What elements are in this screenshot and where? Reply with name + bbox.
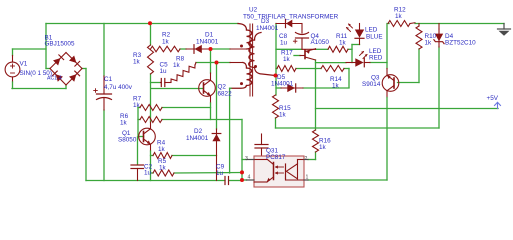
transistor Q3: [382, 75, 399, 92]
resistor R14: [321, 66, 344, 72]
svg-text:BZT52C10: BZT52C10: [445, 40, 476, 47]
wire R10 top lead: [418, 24, 420, 27]
svg-text:1k: 1k: [158, 146, 166, 153]
wire Q3 base: [398, 82, 420, 84]
wire V1 bottom lead: [12, 77, 14, 82]
wire y=49 line D3node-C8-Q4 collector: [276, 48, 302, 50]
wire R17 to R14 (Q4 emitter node): [296, 68, 321, 70]
wire D5/D2 vertical x=216.5 upper: [216, 63, 218, 130]
resistor R7: [140, 105, 162, 111]
svg-text:1k: 1k: [395, 13, 403, 20]
svg-text:6822: 6822: [218, 91, 233, 98]
wire Q4 emitter vertical: [315, 60, 317, 69]
resistor R10: [416, 26, 422, 49]
diode D5: [281, 87, 303, 89]
LED BLUE: [359, 24, 361, 30]
wire R4 right to D2 line: [172, 155, 217, 157]
opto pin 1: [304, 179, 308, 181]
wire Q4 emitter node down to D5 line: [315, 69, 317, 88]
svg-text:1N4001: 1N4001: [256, 25, 279, 32]
zener diode D4: [438, 29, 440, 47]
wire C9 to opto pin4 node: [229, 180, 242, 182]
wire D3-left vertical down to R15 (x=276): [275, 24, 277, 96]
capacitor C9: [224, 177, 226, 185]
wire rail to R3 top: [150, 24, 152, 46]
wire Q1 emitter descender: [150, 151, 152, 181]
wire Q2 base: [151, 88, 203, 90]
wire D5 cathode line to R14 descender: [303, 87, 349, 89]
svg-text:1k: 1k: [120, 120, 128, 127]
voltage source V1: [5, 62, 20, 77]
wire top rail left (bridge + to transformer primary): [46, 23, 238, 25]
wire LED blue hook: [352, 44, 360, 46]
svg-text:4: 4: [248, 175, 251, 181]
svg-text:A1050: A1050: [311, 39, 330, 46]
resistor R6: [140, 117, 162, 123]
svg-text:V1: V1: [20, 61, 28, 68]
wire V1 bottom to bridge: [12, 88, 66, 90]
transistor Q4: [304, 50, 306, 59]
svg-text:1k: 1k: [162, 39, 170, 46]
wire x=242 vertical (opto left node): [241, 120, 243, 181]
opto pin 4: [247, 179, 255, 181]
svg-text:+5V: +5V: [487, 95, 499, 102]
svg-text:S8050: S8050: [118, 137, 137, 144]
wire rail to LED RED / Q3 top riser: [386, 24, 388, 69]
svg-text:1k: 1k: [339, 40, 347, 47]
wire left riser x=46: [45, 24, 47, 69]
svg-text:1: 1: [306, 175, 309, 181]
wire to C5 left: [151, 82, 161, 84]
capacitor C2: [131, 164, 144, 166]
wire R8 line to lower winding hook: [230, 62, 243, 64]
wire LED RED cathode to Q3 riser: [370, 62, 387, 64]
svg-text:U2: U2: [249, 7, 258, 14]
+5V power flag: [497, 103, 499, 109]
svg-text:1N4001: 1N4001: [196, 39, 219, 46]
svg-text:1k: 1k: [319, 144, 327, 151]
wire down to C2 top: [137, 137, 139, 165]
svg-text:1k: 1k: [283, 56, 291, 63]
capacitor C5: [160, 82, 163, 84]
transistor Q2: [199, 80, 216, 97]
diode D2: [216, 129, 218, 181]
wire R11 right: [348, 48, 352, 50]
svg-text:3: 3: [245, 156, 248, 162]
wire D1 node to primary bottom: [211, 48, 231, 50]
wire Q3 bottom to pin1 riser: [386, 98, 388, 181]
wire opto pin4 link: [242, 179, 247, 181]
wire line B (R15 bottom rail) to D4 descender: [276, 127, 440, 129]
wire Q3 bottom pin: [386, 91, 388, 98]
svg-text:1k: 1k: [133, 102, 141, 109]
wire to R11 left: [316, 48, 329, 50]
wire D4 bottom descender: [438, 47, 440, 128]
svg-text:R2: R2: [162, 32, 171, 39]
svg-text:1k: 1k: [332, 83, 340, 90]
wire R5 left lead: [151, 172, 154, 174]
wire V1 top lead: [12, 49, 14, 56]
svg-text:C1: C1: [104, 76, 113, 83]
wire Q1 emitter pin: [150, 144, 152, 151]
capacitor above optocoupler: [261, 134, 263, 145]
capacitor C1: [103, 76, 105, 94]
resistor R17: [277, 66, 296, 72]
wire opto pin2 to R16 corner: [308, 159, 316, 161]
resistor R11: [328, 46, 348, 52]
wire into bridge bottom corner: [65, 85, 67, 89]
svg-text:1u: 1u: [216, 170, 224, 177]
ground symbol: [503, 24, 505, 30]
resistor R12: [388, 21, 410, 27]
junction dot (242,172.4): [240, 170, 244, 174]
resistor R15: [273, 95, 279, 118]
wire to bridge left corner: [46, 68, 50, 70]
wire opto pin1 to riser: [308, 179, 387, 181]
wire V1 top to riser: [13, 48, 47, 50]
wire Q1 collector pin: [150, 122, 152, 129]
svg-text:D2: D2: [194, 128, 203, 135]
svg-text:1k: 1k: [133, 59, 141, 66]
svg-text:1u: 1u: [280, 40, 288, 47]
resistor R4: [153, 153, 172, 159]
wire Q2 emitter down to R6 line: [210, 103, 212, 120]
resistor R16: [313, 130, 319, 152]
svg-text:D1: D1: [205, 32, 214, 39]
wire C1 top connection: [103, 24, 105, 77]
diode D1: [186, 48, 211, 50]
wire right-of-bridge descender x=86: [85, 69, 87, 181]
capacitor C8: [301, 24, 303, 34]
svg-text:S9014: S9014: [362, 81, 381, 88]
svg-text:4,7u 400v: 4,7u 400v: [104, 84, 133, 91]
svg-text:1k: 1k: [173, 62, 181, 69]
wire R10 bottom to Q3 base: [418, 49, 420, 83]
svg-text:1N4001: 1N4001: [271, 81, 294, 88]
wire R3 bottom down: [150, 74, 152, 122]
wire D5 line down to R16 top / line B: [315, 88, 317, 130]
wire R5 right to opto node: [174, 172, 242, 175]
junction dot (210.5,49): [209, 47, 213, 51]
wire LED blue bottom vertical: [351, 45, 353, 63]
wire R6 right to x=242: [162, 119, 242, 121]
opto pin 2: [304, 159, 308, 161]
resistor R2: [151, 46, 181, 52]
junction dot (275.5,75.5): [274, 74, 278, 78]
svg-text:1k: 1k: [159, 165, 167, 172]
wire R7 left lead: [138, 107, 140, 109]
resistor R8: [171, 65, 195, 82]
wire C1 bottom to rail: [103, 110, 105, 181]
wire Q4 base stub: [294, 55, 300, 57]
wire R15 bottom lead: [275, 118, 277, 128]
svg-text:AC1-4: AC1-4: [47, 76, 62, 82]
transformer secondary winding: [255, 33, 262, 41]
wire D1 node to Q2 collector: [210, 49, 212, 73]
wire R7 right to Q2 emitter line: [162, 107, 211, 109]
wire D4 top lead: [438, 24, 440, 30]
wire transformer aux winding descender: [229, 88, 231, 173]
wire R6 left lead: [138, 119, 140, 121]
wire R16 bottom lead: [315, 152, 317, 160]
svg-text:GBJ15005: GBJ15005: [45, 40, 75, 47]
junction dot (150,23.3): [148, 21, 152, 25]
wire R14 right descender: [348, 69, 350, 88]
opto pin 3: [247, 159, 255, 161]
wire R2 to D1: [180, 48, 186, 50]
resistor R3: [148, 45, 154, 74]
svg-text:1N4001: 1N4001: [186, 135, 209, 142]
svg-text:PC817: PC817: [266, 154, 286, 161]
svg-text:1k: 1k: [279, 112, 287, 119]
transistor Q1: [139, 128, 156, 145]
junction dot (216.5,62.5): [215, 61, 219, 65]
resistor R5: [153, 170, 174, 176]
wire Q3 top pin: [386, 69, 388, 76]
wire R8 to transformer primary bottom: [196, 62, 230, 64]
wire +5V line A: [316, 108, 499, 110]
svg-text:LED: LED: [365, 27, 378, 34]
wire R4 left lead: [151, 155, 154, 157]
diode D3: [276, 23, 302, 25]
wire bridge right corner out: [82, 68, 86, 70]
svg-text:2: 2: [305, 156, 308, 162]
svg-text:BLUE: BLUE: [366, 34, 383, 41]
wire R14 right lead: [344, 68, 349, 70]
wire: [388, 23, 390, 25]
wire rail right of R12: [415, 23, 504, 25]
optocoupler Q31 PC817: [254, 156, 304, 187]
transformer core: [249, 24, 251, 96]
wire C8 bottom to Q4 collector (red): [303, 48, 316, 50]
wire to D5 anode: [276, 87, 281, 89]
svg-text:1u: 1u: [144, 170, 152, 177]
svg-text:1k: 1k: [425, 40, 433, 47]
svg-text:T50_TRIFILAR_TRANSFORMER: T50_TRIFILAR_TRANSFORMER: [243, 14, 339, 21]
wire opto pin3 link: [242, 159, 247, 161]
wire R17 left lead: [276, 68, 277, 70]
wire Q4 emitter to LED RED: [316, 62, 347, 64]
svg-text:RED: RED: [369, 55, 383, 62]
junction dot (242,180): [240, 178, 244, 182]
svg-text:1u: 1u: [160, 68, 168, 75]
wire Q1 base lead: [138, 136, 144, 138]
transformer U2 windings: [238, 24, 247, 31]
wire bottom rail to C9: [86, 180, 225, 182]
wire R7/R6 left vertical to Q1 base: [137, 108, 139, 138]
LED RED: [346, 62, 355, 64]
bridge rectifier B1: [50, 53, 66, 69]
wire Q2 emitter pin: [210, 96, 212, 103]
